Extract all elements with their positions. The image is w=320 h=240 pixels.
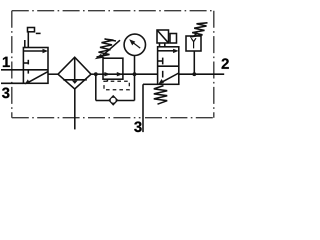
- relief loop right: [134, 74, 136, 100]
- junction node at filter out: [94, 72, 98, 76]
- relief valve seat diamond: [109, 96, 117, 105]
- valve V2 body: [158, 47, 179, 85]
- regulator flow arrowhead 2: [117, 72, 123, 76]
- valve V1 blocked port T1: [23, 62, 28, 64]
- label port 3 left: [2, 88, 9, 99]
- gauge G1 stem: [134, 56, 136, 75]
- valve V2 blocked T1: [158, 60, 163, 62]
- gauge G1 needle: [133, 43, 140, 49]
- filter F1 diamond: [58, 57, 91, 89]
- relief loop left: [95, 74, 97, 100]
- on-off valve V1 body: [23, 48, 48, 84]
- valve V2 blocked T2: [162, 71, 164, 78]
- regulator flow line: [103, 73, 123, 75]
- valve V2 return spring: [154, 86, 167, 105]
- sensor S1 spring lead: [194, 33, 198, 36]
- wire regulator to gauge junction: [123, 73, 158, 75]
- relief loop bottom right: [117, 100, 134, 102]
- valve V2 solenoid box: [157, 30, 169, 43]
- valve V1 exhaust diagonal: [29, 72, 48, 83]
- regulator pilot dashed box: [104, 81, 129, 90]
- sensor S1 Y symbol: [191, 38, 193, 48]
- valve V2 port3 wire: [143, 83, 158, 85]
- wire valve V1 to filter: [48, 73, 58, 75]
- junction node at gauge: [133, 72, 137, 76]
- sensor S1 spring: [190, 23, 208, 37]
- regulator pilot stub: [106, 79, 108, 81]
- regulator flow arrowhead 1: [104, 72, 110, 76]
- valve V1 arrowhead: [43, 49, 49, 53]
- filter F1 condensate vertical: [74, 57, 76, 80]
- label port 2: [222, 58, 229, 68]
- enclosure dash-dot frame: [12, 11, 214, 118]
- sensor S1 stem: [193, 51, 195, 74]
- junction node at sensor stem: [192, 72, 196, 76]
- valve V1 diagonal arrowhead: [25, 79, 31, 84]
- valve V2 divider: [158, 65, 179, 67]
- regulator spring: [97, 39, 117, 57]
- wire filter to regulator: [91, 73, 103, 75]
- port 1 line: [1, 69, 23, 71]
- label port 1: [3, 57, 10, 67]
- regulator R1 body: [103, 58, 123, 79]
- valve V1 top-cell flow arrow: [24, 50, 44, 52]
- regulator adjust arrow shaft: [101, 40, 121, 57]
- valve V2 arrowhead: [173, 49, 179, 53]
- valve V2 exhaust diagonal: [162, 73, 179, 82]
- label port 3 bottom: [134, 121, 141, 132]
- valve V2 override box: [170, 34, 177, 44]
- valve V2 diagonal arrowhead: [158, 79, 164, 84]
- valve V1 knob actuator: [28, 28, 35, 32]
- valve V2 top-cell arrow: [158, 50, 174, 52]
- port 3 line (left): [1, 82, 23, 84]
- relief loop bottom left: [96, 100, 109, 102]
- wire valve V2 out to port 2: [179, 73, 224, 75]
- gauge G1 circle: [124, 34, 145, 55]
- regulator adjust arrowhead: [95, 54, 105, 59]
- valve V1 divider: [23, 69, 48, 71]
- filter F1 drain line: [74, 89, 76, 129]
- filter F1 drain triangle: [72, 81, 78, 84]
- valve V1 blocked port T2: [27, 70, 29, 74]
- sensor S1 box: [186, 36, 201, 51]
- filter F1 separator chord: [63, 79, 87, 81]
